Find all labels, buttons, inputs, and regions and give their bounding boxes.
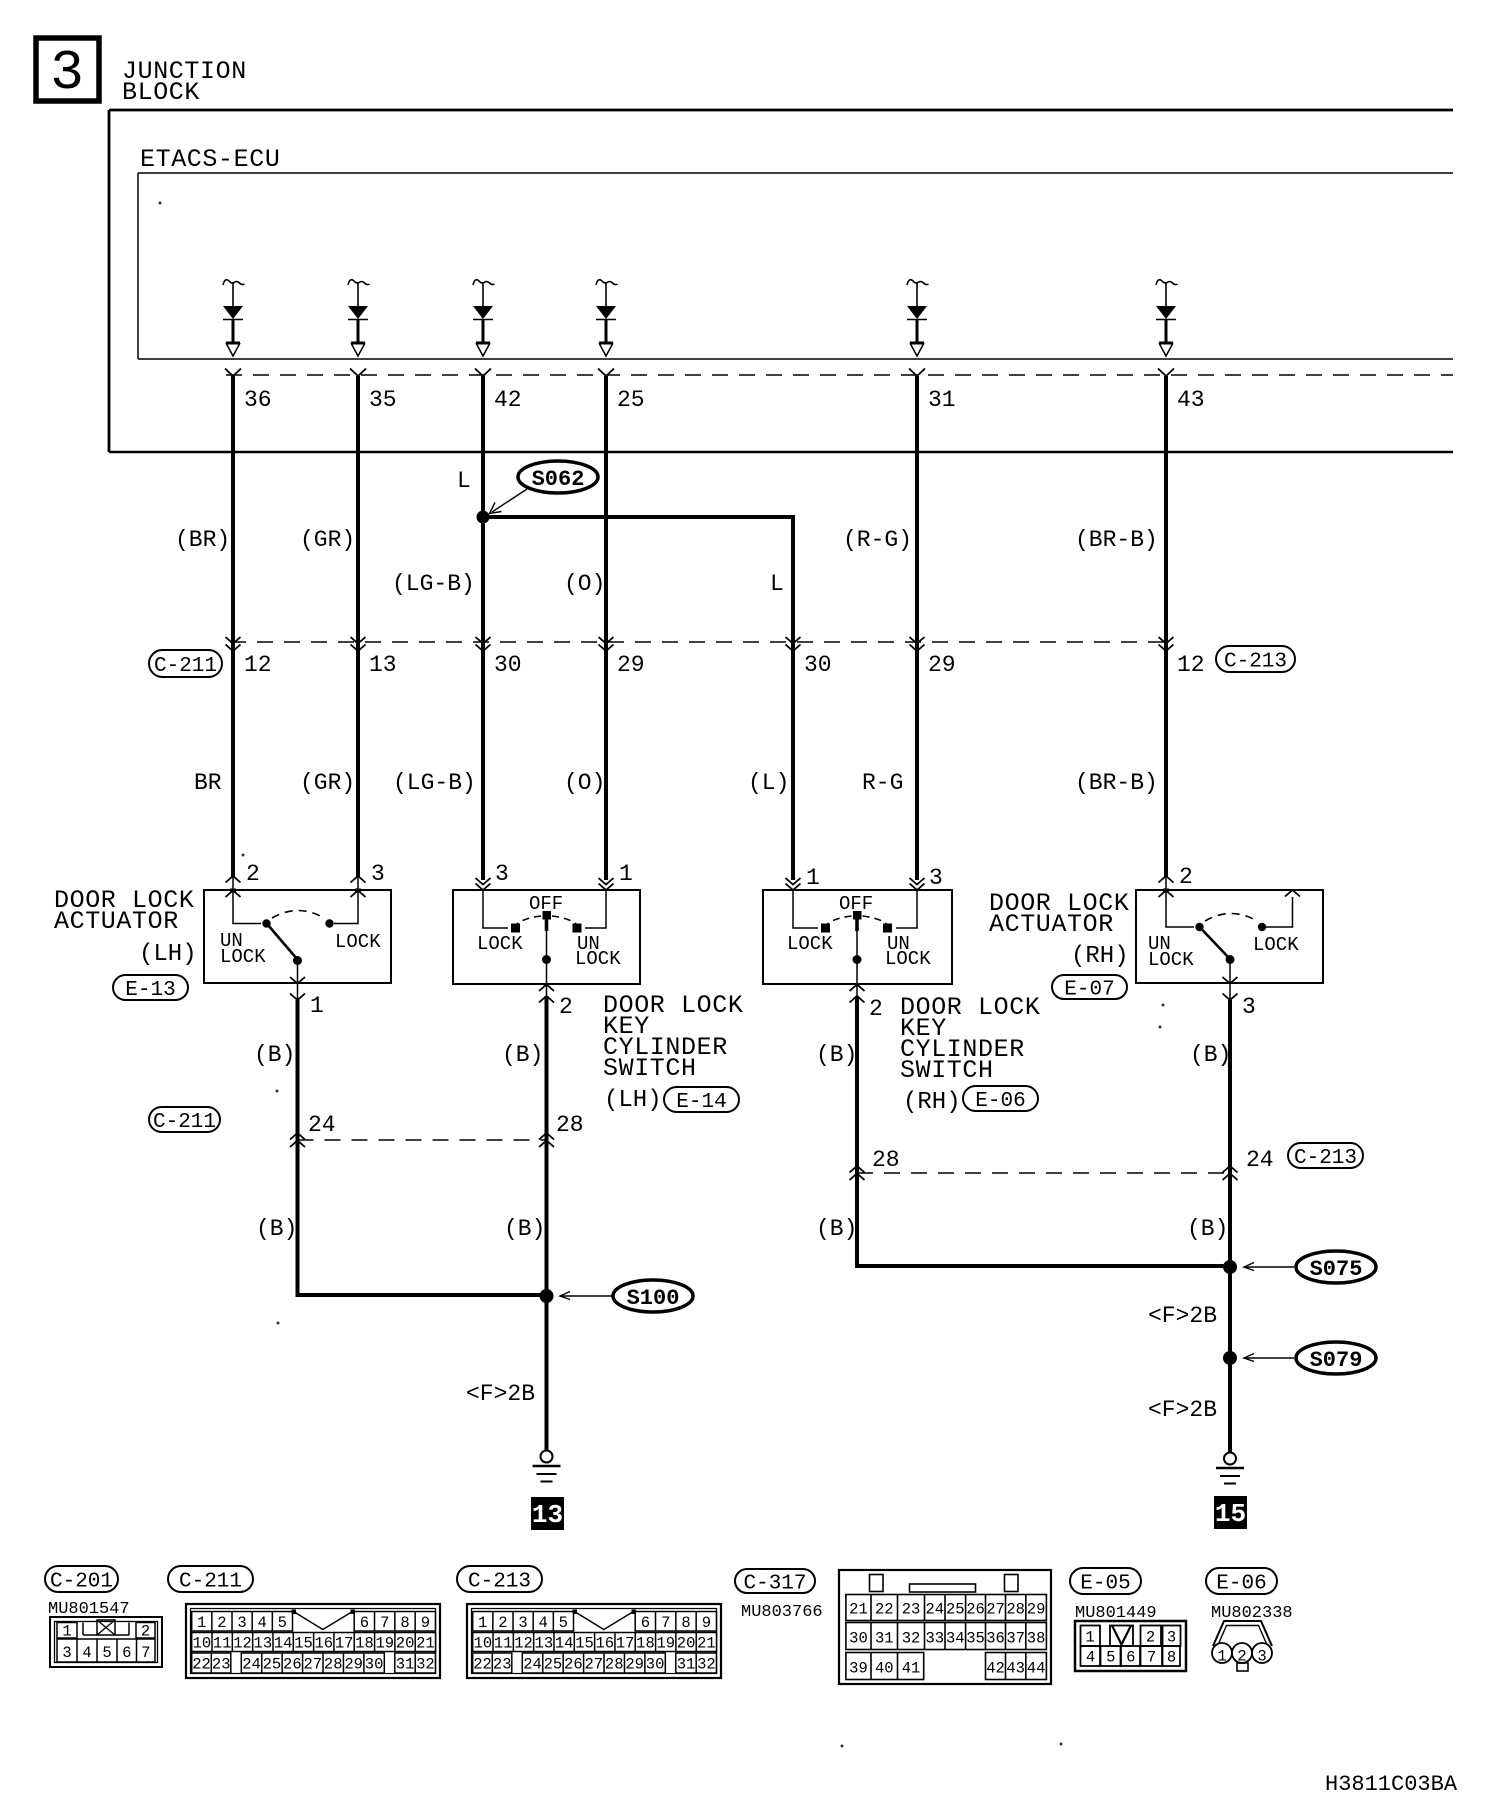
ECU output driver D5 xyxy=(907,280,929,356)
label DOOR LOCK ACTUATOR (RH) xyxy=(989,889,1129,970)
ECU output driver D2 xyxy=(348,280,370,356)
svg-text:22: 22 xyxy=(875,1601,894,1619)
svg-text:1: 1 xyxy=(62,1623,71,1641)
label DOOR LOCK ACTUATOR (LH) xyxy=(54,886,197,968)
S075 callout xyxy=(1244,1251,1376,1283)
svg-text:4: 4 xyxy=(258,1614,267,1632)
C-211 label (bottom) xyxy=(168,1566,253,1594)
svg-text:13: 13 xyxy=(535,1635,554,1653)
svg-text:5: 5 xyxy=(278,1614,287,1632)
connector C-201 xyxy=(50,1617,162,1667)
C-213 label (lower) xyxy=(1288,1143,1363,1170)
wire B from key cyl RH xyxy=(857,996,1224,1266)
svg-text:1: 1 xyxy=(310,993,324,1019)
svg-text:1: 1 xyxy=(1085,1629,1094,1647)
svg-text:11: 11 xyxy=(213,1635,232,1653)
svg-text:16: 16 xyxy=(315,1635,334,1653)
actuator LH unlock contact xyxy=(262,919,270,927)
svg-text:6: 6 xyxy=(360,1614,369,1632)
svg-text:3: 3 xyxy=(371,861,385,887)
svg-text:C-211: C-211 xyxy=(153,1111,216,1134)
actuator RH pin3 exit xyxy=(1223,960,1256,1021)
connector crossing dashed line C-211/C-213 xyxy=(230,641,1170,643)
ECU output driver D3 xyxy=(473,280,495,356)
svg-text:23: 23 xyxy=(493,1656,512,1674)
svg-text:2: 2 xyxy=(141,1623,150,1641)
svg-text:S062: S062 xyxy=(532,467,585,492)
svg-text:13: 13 xyxy=(369,652,397,678)
ETACS pin 43 terminal xyxy=(1158,369,1205,414)
actuator LH pin1 exit xyxy=(290,961,324,1020)
E-06 label xyxy=(1206,1568,1277,1596)
ECU output driver D1 xyxy=(223,280,245,356)
svg-text:5: 5 xyxy=(1106,1649,1115,1667)
svg-text:2: 2 xyxy=(1146,1629,1155,1647)
svg-text:36: 36 xyxy=(244,387,272,413)
svg-text:4: 4 xyxy=(1086,1649,1095,1667)
svg-text:36: 36 xyxy=(986,1630,1005,1648)
actuator LH lever arc xyxy=(272,911,324,919)
svg-text:31: 31 xyxy=(396,1656,415,1674)
svg-text:27: 27 xyxy=(303,1656,322,1674)
crossing terminal pin 28 right xyxy=(850,1147,900,1180)
actuator LH internal wiring xyxy=(233,890,358,924)
svg-text:18: 18 xyxy=(636,1635,655,1653)
svg-text:2: 2 xyxy=(246,861,260,887)
svg-text:C-211: C-211 xyxy=(179,1571,242,1594)
key cyl LH lever arcs xyxy=(517,916,576,924)
svg-text:7: 7 xyxy=(141,1644,150,1662)
door lock actuator LH box xyxy=(204,890,391,983)
svg-text:29: 29 xyxy=(344,1656,363,1674)
connector C-213 xyxy=(467,1604,721,1678)
actuator RH lever arc xyxy=(1205,914,1257,922)
svg-text:35: 35 xyxy=(966,1630,985,1648)
svg-text:3: 3 xyxy=(495,861,509,887)
svg-text:43: 43 xyxy=(1006,1660,1025,1678)
key cyl RH pin 3 arrows xyxy=(910,865,943,891)
svg-text:13: 13 xyxy=(254,1635,273,1653)
svg-text:17: 17 xyxy=(616,1635,635,1653)
svg-text:BR: BR xyxy=(194,770,222,796)
E-14 label xyxy=(664,1087,739,1114)
svg-text:(O): (O) xyxy=(564,770,605,796)
svg-text:5: 5 xyxy=(102,1644,111,1662)
ETACS connector dashed line xyxy=(226,374,1453,376)
actuator LH switch lever xyxy=(268,925,302,965)
svg-text:34: 34 xyxy=(946,1630,965,1648)
svg-text:2: 2 xyxy=(869,996,883,1022)
svg-text:32: 32 xyxy=(416,1656,435,1674)
svg-text:40: 40 xyxy=(875,1660,894,1678)
E-07 label xyxy=(1052,975,1127,1002)
key cyl LH lock contact xyxy=(511,924,520,933)
svg-text:10: 10 xyxy=(193,1635,212,1653)
svg-text:(LG-B): (LG-B) xyxy=(393,770,476,796)
svg-text:S100: S100 xyxy=(627,1286,680,1311)
page number box 3 xyxy=(36,38,99,105)
svg-text:3: 3 xyxy=(1242,994,1256,1020)
key cyl LH pin 3 arrows xyxy=(476,861,509,890)
svg-text:(B): (B) xyxy=(256,1216,297,1242)
svg-text:12: 12 xyxy=(1177,652,1205,678)
svg-text:LOCK: LOCK xyxy=(477,933,523,955)
actuator LH pin 2 arrows xyxy=(226,861,260,897)
connector E-06 xyxy=(1212,1621,1272,1671)
svg-text:(RH): (RH) xyxy=(1071,943,1129,970)
svg-text:(L): (L) xyxy=(748,770,789,796)
crossing terminal pin 24 right xyxy=(1223,1147,1274,1180)
svg-text:26: 26 xyxy=(564,1656,583,1674)
svg-text:2: 2 xyxy=(1179,864,1193,890)
svg-text:5: 5 xyxy=(559,1614,568,1632)
connector E-05 xyxy=(1075,1621,1186,1671)
svg-text:24: 24 xyxy=(1246,1147,1274,1173)
svg-text:39: 39 xyxy=(849,1660,868,1678)
key cyl LH pin 1 arrows xyxy=(599,861,633,890)
svg-text:20: 20 xyxy=(677,1635,696,1653)
ETACS pin 36 terminal xyxy=(225,369,272,414)
svg-text:4: 4 xyxy=(82,1644,91,1662)
svg-text:42: 42 xyxy=(494,387,522,413)
key cyl RH internal wiring xyxy=(793,890,917,928)
ETACS pin 35 terminal xyxy=(350,369,397,414)
svg-text:17: 17 xyxy=(335,1635,354,1653)
svg-text:15: 15 xyxy=(1215,1499,1246,1529)
svg-text:21: 21 xyxy=(849,1601,868,1619)
crossing terminal pin 29 xyxy=(910,637,956,678)
svg-text:L: L xyxy=(770,571,784,597)
svg-text:37: 37 xyxy=(1006,1630,1025,1648)
key cyl LH internal wiring xyxy=(483,890,606,928)
key cyl RH lever xyxy=(853,911,862,964)
svg-text:LOCK: LOCK xyxy=(220,946,266,968)
splice S079 xyxy=(1223,1351,1237,1365)
svg-text:29: 29 xyxy=(1027,1601,1046,1619)
svg-text:9: 9 xyxy=(421,1614,430,1632)
svg-text:12: 12 xyxy=(233,1635,252,1653)
ETACS-ECU box xyxy=(138,173,1453,359)
svg-text:1: 1 xyxy=(478,1614,487,1632)
svg-text:E-06: E-06 xyxy=(1216,1573,1266,1596)
actuator RH unlock contact xyxy=(1195,923,1203,931)
key cyl RH unlock contact xyxy=(883,924,892,933)
svg-text:H3811C03BA: H3811C03BA xyxy=(1325,1772,1458,1797)
svg-text:(LG-B): (LG-B) xyxy=(392,571,475,597)
crossing terminal pin 12 xyxy=(1159,637,1205,678)
svg-text:20: 20 xyxy=(396,1635,415,1653)
wire BR-B pin43 xyxy=(1164,376,1168,877)
svg-text:21: 21 xyxy=(697,1635,716,1653)
svg-text:C-213: C-213 xyxy=(1224,651,1287,674)
svg-text:MU803766: MU803766 xyxy=(741,1603,823,1622)
label UN LOCK (act LH) xyxy=(220,930,266,968)
svg-text:2: 2 xyxy=(217,1614,226,1632)
label DOOR LOCK KEY CYLINDER SWITCH (LH) xyxy=(603,991,743,1114)
svg-text:25: 25 xyxy=(946,1601,965,1619)
svg-text:29: 29 xyxy=(617,652,645,678)
C-213 lower dashed line xyxy=(857,1172,1230,1174)
connector C-211 xyxy=(186,1604,440,1678)
svg-text:3: 3 xyxy=(1167,1629,1176,1647)
svg-text:28: 28 xyxy=(1006,1601,1025,1619)
svg-text:C-317: C-317 xyxy=(743,1573,806,1596)
svg-text:29: 29 xyxy=(625,1656,644,1674)
svg-text:7: 7 xyxy=(1147,1649,1156,1667)
ECU output driver D6 xyxy=(1156,280,1178,356)
svg-text:43: 43 xyxy=(1177,387,1205,413)
svg-text:13: 13 xyxy=(532,1500,563,1530)
crossing terminal pin 28 xyxy=(539,1112,584,1147)
C-201 label xyxy=(45,1566,118,1594)
svg-text:<F>2B: <F>2B xyxy=(1148,1397,1217,1423)
svg-text:15: 15 xyxy=(575,1635,594,1653)
svg-text:E-05: E-05 xyxy=(1080,1573,1130,1596)
svg-text:21: 21 xyxy=(416,1635,435,1653)
ground 15 xyxy=(1216,1453,1244,1484)
ETACS pin 25 terminal xyxy=(598,369,645,414)
svg-text:(BR-B): (BR-B) xyxy=(1075,527,1158,553)
svg-text:<F>2B: <F>2B xyxy=(1148,1303,1217,1329)
svg-text:2: 2 xyxy=(559,994,573,1020)
S079 callout xyxy=(1244,1342,1376,1374)
svg-text:(GR): (GR) xyxy=(300,527,355,553)
junction block label xyxy=(122,57,247,107)
svg-text:18: 18 xyxy=(355,1635,374,1653)
svg-text:LOCK: LOCK xyxy=(787,933,833,955)
svg-text:28: 28 xyxy=(605,1656,624,1674)
svg-text:(B): (B) xyxy=(254,1042,295,1068)
svg-text:9: 9 xyxy=(702,1614,711,1632)
svg-text:C-201: C-201 xyxy=(50,1571,113,1594)
C-213 label (upper) xyxy=(1216,646,1295,674)
svg-text:24: 24 xyxy=(925,1601,944,1619)
svg-text:C-213: C-213 xyxy=(468,1571,531,1594)
svg-text:19: 19 xyxy=(375,1635,394,1653)
wire R-G pin31 xyxy=(915,376,919,880)
svg-text:1: 1 xyxy=(1217,1648,1226,1666)
actuator RH pin 2 arrows xyxy=(1159,864,1193,897)
svg-text:E-06: E-06 xyxy=(975,1090,1025,1113)
splice S075 xyxy=(1223,1260,1237,1274)
svg-text:26: 26 xyxy=(283,1656,302,1674)
wire BR pin36 xyxy=(231,376,235,877)
C-211 label (upper) xyxy=(149,650,222,678)
svg-text:E-13: E-13 xyxy=(125,979,175,1002)
svg-text:6: 6 xyxy=(122,1644,131,1662)
svg-text:6: 6 xyxy=(1126,1649,1135,1667)
svg-text:24: 24 xyxy=(242,1656,261,1674)
ECU output driver D4 xyxy=(596,280,618,356)
svg-text:SWITCH: SWITCH xyxy=(603,1054,697,1083)
svg-text:3: 3 xyxy=(1257,1648,1266,1666)
svg-text:14: 14 xyxy=(274,1635,293,1653)
svg-text:12: 12 xyxy=(514,1635,533,1653)
svg-text:BLOCK: BLOCK xyxy=(122,78,200,107)
svg-text:28: 28 xyxy=(324,1656,343,1674)
C-211 lower dashed line xyxy=(298,1139,547,1141)
svg-text:L: L xyxy=(457,468,471,494)
svg-text:E-07: E-07 xyxy=(1064,979,1114,1002)
svg-text:S079: S079 xyxy=(1310,1348,1363,1373)
svg-text:(BR-B): (BR-B) xyxy=(1075,770,1158,796)
svg-text:31: 31 xyxy=(928,387,956,413)
wire B from actuator RH xyxy=(1228,1000,1232,1452)
wire L branch from S062 xyxy=(483,517,793,880)
label DOOR LOCK KEY CYLINDER SWITCH (RH) xyxy=(900,993,1040,1116)
svg-text:15: 15 xyxy=(294,1635,313,1653)
svg-text:4: 4 xyxy=(539,1614,548,1632)
splice S100 xyxy=(540,1289,554,1303)
svg-text:25: 25 xyxy=(544,1656,563,1674)
svg-text:24: 24 xyxy=(308,1112,336,1138)
S100 callout xyxy=(560,1280,693,1312)
crossing terminal pin 13 xyxy=(351,637,397,678)
svg-text:44: 44 xyxy=(1027,1660,1046,1678)
svg-text:1: 1 xyxy=(197,1614,206,1632)
label UN LOCK (act RH) xyxy=(1148,933,1194,971)
wire B from actuator LH xyxy=(298,1000,542,1295)
wire GR pin35 xyxy=(356,376,360,877)
crossing terminal pin 30 xyxy=(786,637,832,678)
svg-text:19: 19 xyxy=(656,1635,675,1653)
svg-text:41: 41 xyxy=(902,1660,921,1678)
svg-text:(GR): (GR) xyxy=(300,770,355,796)
actuator LH lock contact xyxy=(325,919,333,927)
ground ref 13 xyxy=(531,1497,564,1530)
wire B from key cyl LH xyxy=(545,996,549,1450)
svg-text:R-G: R-G xyxy=(862,770,903,796)
svg-text:LOCK: LOCK xyxy=(1148,949,1194,971)
ground ref 15 xyxy=(1214,1496,1247,1529)
svg-text:ETACS-ECU: ETACS-ECU xyxy=(140,145,280,174)
svg-text:(B): (B) xyxy=(502,1042,543,1068)
key cylinder switch RH box xyxy=(763,890,952,984)
actuator RH lock wire arrow xyxy=(1285,890,1300,897)
svg-text:30: 30 xyxy=(494,652,522,678)
crossing terminal pin 24 xyxy=(290,1112,336,1147)
crossing terminal pin 12 xyxy=(226,637,272,678)
svg-text:LOCK: LOCK xyxy=(1253,934,1299,956)
svg-text:(LH): (LH) xyxy=(139,941,197,968)
svg-text:30: 30 xyxy=(365,1656,384,1674)
key cyl LH lever xyxy=(542,911,551,964)
key cylinder switch LH box xyxy=(453,890,640,984)
label UN LOCK (key RH) xyxy=(885,933,931,970)
svg-text:29: 29 xyxy=(928,652,956,678)
ground 13 xyxy=(533,1451,561,1482)
svg-text:25: 25 xyxy=(617,387,645,413)
svg-text:16: 16 xyxy=(596,1635,615,1653)
svg-text:(O): (O) xyxy=(564,571,605,597)
svg-text:31: 31 xyxy=(875,1630,894,1648)
svg-text:(R-G): (R-G) xyxy=(843,527,912,553)
svg-text:(RH): (RH) xyxy=(903,1089,961,1116)
svg-text:(B): (B) xyxy=(816,1216,857,1242)
svg-text:33: 33 xyxy=(925,1630,944,1648)
key cyl RH lock contact xyxy=(821,924,830,933)
svg-text:(BR): (BR) xyxy=(175,527,230,553)
svg-text:31: 31 xyxy=(677,1656,696,1674)
svg-text:8: 8 xyxy=(400,1614,409,1632)
svg-text:3: 3 xyxy=(62,1644,71,1662)
ETACS pin 31 terminal xyxy=(909,369,956,414)
svg-text:8: 8 xyxy=(681,1614,690,1632)
svg-text:27: 27 xyxy=(584,1656,603,1674)
svg-text:23: 23 xyxy=(212,1656,231,1674)
scan speck dots xyxy=(159,202,1165,1748)
connector C-317 xyxy=(839,1570,1051,1684)
crossing terminal pin 29 xyxy=(599,637,645,678)
actuator LH pin 3 arrows xyxy=(351,861,385,897)
splice S062 xyxy=(477,511,490,524)
svg-text:LOCK: LOCK xyxy=(335,931,381,953)
svg-text:24: 24 xyxy=(523,1656,542,1674)
E-06 label xyxy=(963,1086,1038,1113)
svg-text:25: 25 xyxy=(263,1656,282,1674)
key cyl LH pin2 exit xyxy=(539,960,573,1021)
key cyl RH pin2 exit xyxy=(850,960,883,1023)
svg-text:3: 3 xyxy=(237,1614,246,1632)
svg-text:3: 3 xyxy=(518,1614,527,1632)
svg-text:(B): (B) xyxy=(816,1042,857,1068)
svg-text:8: 8 xyxy=(1167,1649,1176,1667)
label UN LOCK (key LH) xyxy=(575,933,621,970)
svg-text:ACTUATOR: ACTUATOR xyxy=(54,907,179,936)
C-211 label (lower) xyxy=(149,1107,220,1134)
actuator RH lock contact xyxy=(1258,923,1266,931)
svg-text:1: 1 xyxy=(806,865,820,891)
svg-text:22: 22 xyxy=(192,1656,211,1674)
svg-text:11: 11 xyxy=(494,1635,513,1653)
key cyl RH pin 1 arrows xyxy=(786,865,820,891)
svg-text:(LH): (LH) xyxy=(604,1087,662,1114)
svg-text:35: 35 xyxy=(369,387,397,413)
wire O pin25 xyxy=(604,376,608,880)
svg-text:7: 7 xyxy=(380,1614,389,1632)
C-213 label (bottom) xyxy=(457,1566,542,1594)
svg-text:7: 7 xyxy=(661,1614,670,1632)
svg-text:30: 30 xyxy=(646,1656,665,1674)
svg-text:(B): (B) xyxy=(1187,1216,1228,1242)
svg-text:<F>2B: <F>2B xyxy=(466,1381,535,1407)
svg-text:14: 14 xyxy=(555,1635,574,1653)
svg-text:E-14: E-14 xyxy=(676,1091,726,1114)
svg-text:(B): (B) xyxy=(504,1216,545,1242)
svg-text:32: 32 xyxy=(902,1630,921,1648)
svg-text:22: 22 xyxy=(473,1656,492,1674)
crossing terminal pin 30 xyxy=(476,637,522,678)
S062 callout xyxy=(490,461,599,514)
svg-text:38: 38 xyxy=(1027,1630,1046,1648)
svg-text:10: 10 xyxy=(474,1635,493,1653)
svg-text:3: 3 xyxy=(50,41,84,105)
wire L pin42 xyxy=(481,376,485,880)
C-317 label xyxy=(735,1569,815,1596)
actuator RH switch lever xyxy=(1201,929,1235,965)
svg-text:28: 28 xyxy=(556,1112,584,1138)
svg-text:27: 27 xyxy=(986,1601,1005,1619)
svg-text:30: 30 xyxy=(804,652,832,678)
door lock actuator RH box xyxy=(1136,890,1323,983)
svg-text:32: 32 xyxy=(697,1656,716,1674)
key cyl LH unlock contact xyxy=(573,924,582,933)
svg-text:C-213: C-213 xyxy=(1294,1147,1357,1170)
svg-text:23: 23 xyxy=(902,1601,921,1619)
svg-text:S075: S075 xyxy=(1310,1257,1363,1282)
svg-text:1: 1 xyxy=(619,861,633,887)
ETACS pin 42 terminal xyxy=(475,369,522,414)
